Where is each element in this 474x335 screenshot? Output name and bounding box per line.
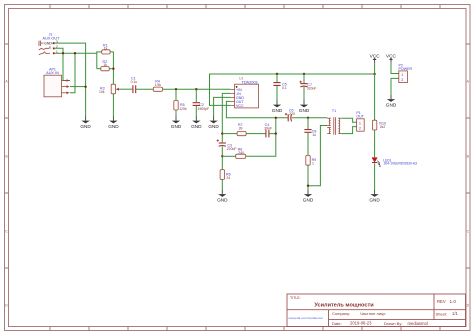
wire R5 bottom to GND [175, 110, 177, 117]
wire VCC flag down through rail to R10 [374, 63, 376, 121]
svg-text:VCC: VCC [236, 104, 244, 108]
svg-text:1: 1 [56, 50, 58, 54]
node: feedback junction at -IN column [221, 132, 223, 134]
connector P2 POWER [399, 64, 413, 83]
resistor R10 [372, 120, 386, 130]
ground under U1 GND pin [208, 117, 219, 129]
resistor R5 [174, 100, 187, 110]
svg-text:Sheet:: Sheet: [436, 312, 448, 317]
ground under C7 [299, 101, 310, 113]
resistor R9 [306, 155, 316, 165]
capacitor C4 [264, 123, 272, 137]
wire U1 VCC pin up to VCC rail [210, 74, 375, 105]
svg-text:Частное лицо: Частное лицо [360, 311, 386, 316]
wire R3 bottom to GND [112, 94, 114, 117]
capacitor C3 (polarized) [217, 139, 237, 151]
svg-text:39nF: 39nF [264, 126, 272, 130]
wire C6 right to T1 [292, 117, 327, 119]
wire R9 bottom to GND and T1 return [307, 165, 309, 190]
title block [287, 294, 466, 327]
power flag VCC (left) [370, 54, 381, 63]
wire node down to R6 [221, 156, 223, 169]
resistor R2 [101, 60, 109, 71]
svg-text:0.1u: 0.1u [131, 80, 138, 84]
ground under LED1 [369, 190, 380, 202]
power flag VCC (right) [386, 54, 397, 63]
wire C3 bottom to R8/R6 node [221, 146, 223, 156]
wire T1 secondary top to P1 pin1 [342, 118, 357, 122]
svg-text:2019-08-23: 2019-08-23 [350, 321, 372, 326]
svg-text:2: 2 [359, 127, 361, 131]
svg-text:Усилитель мощности: Усилитель мощности [314, 303, 374, 309]
svg-text:AUX IN: AUX IN [46, 71, 59, 75]
svg-text:2: 2 [401, 78, 403, 82]
ground under R9 [303, 190, 314, 202]
resistor R6 [220, 170, 231, 181]
ground under R5 [171, 117, 182, 129]
svg-text:3: 3 [56, 40, 58, 44]
wire C2 top [195, 89, 197, 102]
svg-text:1.0: 1.0 [450, 299, 457, 304]
connector AP1 AUX IN [44, 68, 70, 97]
ground under C2 [191, 117, 202, 129]
resistor R4 [153, 80, 162, 92]
capacitor C6 (output, polarized, horizontal) [285, 108, 295, 121]
ground row: GND under J1 sleeve net [80, 117, 91, 129]
svg-text:220uF: 220uF [227, 147, 237, 151]
wire R1 right to node [110, 52, 113, 84]
wire J1 pin1 to R1/R2 node [55, 52, 97, 54]
capacitor C1 [131, 77, 138, 94]
connector P1 OUT [356, 111, 364, 131]
wire C8 bottom to R9 [307, 133, 309, 156]
svg-text:OUT: OUT [356, 115, 364, 119]
wire VCC flag to P2 pin1 [391, 63, 399, 74]
wire T1 secondary bottom to P1 pin2 [342, 127, 357, 134]
wire C7 top [303, 74, 305, 83]
wire C8 top [307, 118, 309, 129]
wire C7 bottom to GND [303, 87, 305, 101]
ground under P2 [386, 95, 397, 107]
svg-text:1: 1 [359, 122, 361, 126]
wire AP1 pin2 to GND net [70, 86, 86, 88]
wire -IN node to R7 [222, 133, 237, 135]
wire C5 bottom to GND [276, 86, 278, 101]
svg-text:1.5k: 1.5k [155, 83, 162, 87]
capacitor C5 [273, 83, 286, 90]
ground under R6 [217, 190, 228, 202]
wire J1 pin2 to AP1 pin1 [55, 48, 70, 80]
svg-text:mediasmol: mediasmol [408, 321, 428, 326]
resistor R8 [236, 147, 246, 158]
capacitor C7 (polarized) [300, 81, 317, 91]
wire R4 to U1 +IN [163, 88, 231, 90]
svg-text:1u: 1u [312, 133, 316, 137]
op-amp U1 TDA2003 [231, 77, 259, 108]
svg-text:2: 2 [56, 45, 58, 49]
capacitor C2 [193, 103, 210, 111]
svg-text:easyeda.com/mediasmol: easyeda.com/mediasmol [289, 316, 324, 320]
svg-text:REV: REV [437, 299, 446, 304]
capacitor C8 [304, 130, 316, 138]
wire C2 bottom to GND [195, 106, 197, 117]
wire R8 right to OUT column [246, 155, 276, 157]
LED LED1 [372, 158, 417, 168]
svg-text:1500pF: 1500pF [198, 107, 210, 111]
potentiometer R3 [99, 84, 120, 94]
wire node to R8 [222, 155, 235, 157]
wire node to R1 left [97, 52, 102, 69]
svg-text:10k: 10k [99, 90, 105, 94]
transformer T1 [327, 109, 342, 135]
pin numbers J1 [56, 40, 58, 54]
wire R3 wiper to C1 [120, 88, 133, 90]
wire R10 bottom to LED1 [374, 130, 376, 157]
junction dots left section [62, 52, 64, 54]
wire R7 to C4 [246, 133, 265, 135]
ground under R3 [108, 117, 119, 129]
svg-text:204-10SURD/S530-A3: 204-10SURD/S530-A3 [384, 162, 418, 166]
wire R6 bottom to GND [221, 179, 223, 190]
svg-text:24: 24 [226, 176, 230, 180]
wire feedback column to OUT rail [275, 118, 277, 156]
svg-text:2k2: 2k2 [380, 125, 386, 129]
connector J1 AUX OUT [39, 32, 60, 54]
wire R5 top [175, 89, 177, 100]
svg-text:120k: 120k [179, 107, 187, 111]
ground under C5 [272, 101, 283, 113]
svg-text:T1: T1 [332, 109, 336, 113]
wire P2 pin2 to GND [391, 78, 399, 95]
svg-text:1: 1 [312, 161, 314, 165]
wire C1 to R4 [136, 88, 153, 90]
svg-text:1/1: 1/1 [452, 311, 458, 316]
wire U1 GND pin to GND [214, 97, 231, 116]
svg-text:Drawn By:: Drawn By: [384, 321, 402, 326]
wire R2 right to node [109, 68, 113, 70]
svg-text:1: 1 [401, 73, 403, 77]
svg-text:TITLE:: TITLE: [290, 296, 301, 300]
svg-text:220: 220 [289, 112, 295, 116]
wire U1 OUT down to output rail [226, 101, 288, 117]
svg-text:Date:: Date: [332, 321, 342, 326]
wire U1 -IN down to feedback node [222, 93, 230, 142]
svg-text:Company:: Company: [332, 311, 350, 316]
wire J1 pin3 to GND net [55, 43, 86, 117]
wire C4 to OUT rail column [269, 133, 275, 135]
wire C5 top [276, 74, 278, 82]
svg-text:39: 39 [239, 126, 243, 130]
svg-text:GND: GND [44, 41, 52, 45]
resistor R7 [237, 123, 246, 136]
wire jack L to AP1 pin3 [70, 53, 75, 93]
svg-text:330uF: 330uF [307, 87, 317, 91]
svg-text:0.1: 0.1 [282, 86, 287, 90]
wire node to R2 left [97, 68, 101, 70]
wire LED1 to GND [374, 163, 376, 190]
resistor R1 [102, 43, 110, 54]
